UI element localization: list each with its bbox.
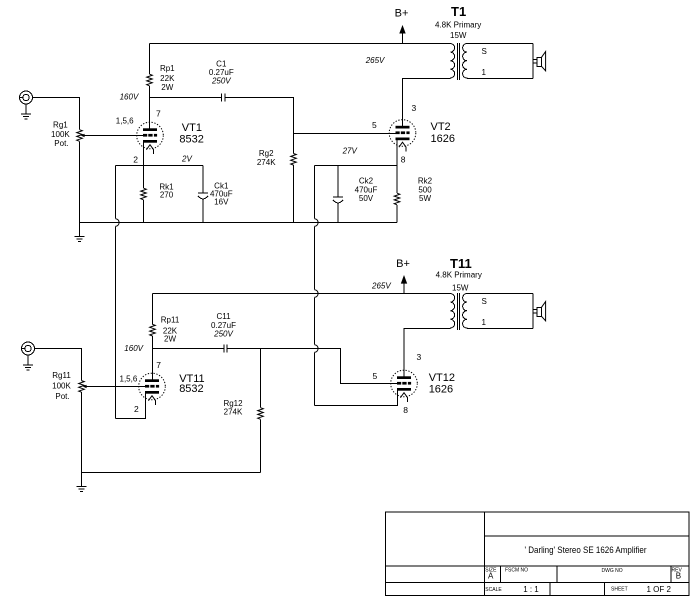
svg-text:100K: 100K xyxy=(52,382,71,391)
resistor Rk2 xyxy=(394,193,400,205)
svg-text:100K: 100K xyxy=(51,130,70,139)
svg-text:160V: 160V xyxy=(124,344,143,353)
ground (jack J11) xyxy=(27,355,29,365)
wire wiper to VT11 grid xyxy=(86,386,145,388)
svg-text:Rk2: Rk2 xyxy=(418,177,433,186)
capacitor C1 xyxy=(222,93,225,101)
triode VT12 xyxy=(391,370,418,402)
svg-text:SCALE: SCALE xyxy=(485,587,502,593)
ground bus (bottom channel) xyxy=(82,472,261,474)
svg-text:22K: 22K xyxy=(160,74,175,83)
ground (jack J1) xyxy=(25,104,27,114)
wiper arrow of Rg1 xyxy=(81,134,85,137)
svg-text:Rp1: Rp1 xyxy=(160,64,175,73)
wire shared cathode vertical (27V to VT12) with hops xyxy=(314,166,316,219)
svg-text:C11: C11 xyxy=(216,312,231,321)
input jack J1 xyxy=(20,91,33,104)
svg-text:250V: 250V xyxy=(211,77,231,86)
capacitor C11 xyxy=(224,344,227,352)
resistor Rg12 xyxy=(260,349,262,408)
title block row line 2 xyxy=(386,565,690,567)
ground (top bus) xyxy=(79,223,81,237)
svg-text:15W: 15W xyxy=(452,284,469,293)
wire pot bottom to ground bus xyxy=(81,392,83,472)
wire VT1 plate lead xyxy=(149,98,151,129)
B+ arrow (top) xyxy=(402,30,404,44)
svg-text:B: B xyxy=(676,572,681,581)
title block row line 1 xyxy=(484,535,689,537)
resistor Rk1 xyxy=(143,166,145,189)
svg-text:T1: T1 xyxy=(451,4,466,19)
wire shared cathode vertical (2V to VT11) with hop xyxy=(115,166,117,219)
capacitor Ck1 xyxy=(202,166,204,193)
svg-text:DWG NO: DWG NO xyxy=(602,568,623,574)
svg-text:4.8K Primary: 4.8K Primary xyxy=(435,21,481,30)
potentiometer Rg11 xyxy=(79,381,85,393)
input jack J11 xyxy=(22,342,35,355)
transformer T1 xyxy=(450,43,545,80)
svg-text:8: 8 xyxy=(403,405,408,415)
svg-text:3: 3 xyxy=(417,352,422,362)
svg-text:265V: 265V xyxy=(365,56,385,65)
svg-text:7: 7 xyxy=(156,360,161,370)
resistor Rg2 xyxy=(293,134,295,154)
svg-text:5W: 5W xyxy=(419,194,431,203)
wire T1 primary bottom to VT2 plate xyxy=(403,79,451,126)
transformer T11 xyxy=(450,293,545,330)
wire VT2 cathode to 27V node xyxy=(396,140,398,165)
svg-text:27V: 27V xyxy=(342,147,358,156)
title block rev cell divider xyxy=(670,566,672,583)
svg-text:1,5,6: 1,5,6 xyxy=(120,374,138,383)
svg-text:270: 270 xyxy=(160,191,174,200)
svg-text:2: 2 xyxy=(134,404,139,414)
svg-text:8532: 8532 xyxy=(179,133,203,145)
wire T11 primary bottom to VT12 plate xyxy=(404,329,450,377)
svg-text:A: A xyxy=(488,572,494,581)
wire 160V node to C11 xyxy=(153,348,224,350)
svg-text:SHEET: SHEET xyxy=(611,586,628,592)
svg-text:2: 2 xyxy=(133,155,138,165)
svg-text:250V: 250V xyxy=(213,330,233,339)
svg-text:2W: 2W xyxy=(161,83,173,92)
svg-text:VT2: VT2 xyxy=(431,121,451,133)
svg-text:Pot.: Pot. xyxy=(55,392,69,401)
wire wiper to VT1 grid xyxy=(84,135,143,137)
B+ arrow (bottom) xyxy=(403,280,405,294)
svg-text:B+: B+ xyxy=(396,258,410,270)
svg-text:VT12: VT12 xyxy=(429,372,455,384)
svg-text:1626: 1626 xyxy=(431,133,455,145)
title block column divider xyxy=(483,512,485,596)
svg-text:1 : 1: 1 : 1 xyxy=(523,585,539,594)
svg-text:16V: 16V xyxy=(214,198,229,207)
title block row line 3 xyxy=(386,582,690,584)
svg-text:1626: 1626 xyxy=(429,383,453,395)
triode VT1 xyxy=(137,122,164,154)
wire C11 to VT12 grid xyxy=(227,349,397,384)
svg-text:50V: 50V xyxy=(359,194,374,203)
svg-text:Ck2: Ck2 xyxy=(359,177,374,186)
svg-text:7: 7 xyxy=(156,109,161,119)
B+ rail (top) xyxy=(150,43,451,45)
wire VT11 cathode (pin 2) xyxy=(116,394,146,419)
B+ rail (bottom) xyxy=(153,293,451,295)
svg-text:B+: B+ xyxy=(395,8,409,20)
svg-text:274K: 274K xyxy=(224,407,243,416)
svg-text:Rg1: Rg1 xyxy=(53,121,68,130)
svg-text:VT1: VT1 xyxy=(182,122,202,134)
potentiometer Rg1 xyxy=(77,130,83,142)
svg-text:15W: 15W xyxy=(450,31,467,40)
wire pot bottom to ground bus xyxy=(79,141,81,222)
svg-text:1,5,6: 1,5,6 xyxy=(116,117,134,126)
title block scale cell divider xyxy=(549,583,551,596)
wire 160V node to C1 xyxy=(150,97,222,99)
svg-text:5: 5 xyxy=(373,371,378,381)
svg-text:Pot.: Pot. xyxy=(54,139,68,148)
svg-text:Rg11: Rg11 xyxy=(52,371,71,380)
wire jack to pot Rg11 xyxy=(35,349,82,381)
svg-text:8: 8 xyxy=(401,155,406,165)
wire 2V node xyxy=(116,165,204,167)
title block size cell divider xyxy=(499,566,501,583)
svg-text:Rp11: Rp11 xyxy=(161,316,180,325)
resistor Rp11 xyxy=(152,294,154,325)
svg-text:3: 3 xyxy=(412,103,417,113)
svg-text:8532: 8532 xyxy=(179,383,203,395)
title block fscm cell divider xyxy=(556,566,558,583)
wire C1 to VT2 grid xyxy=(225,98,396,134)
wire jack to pot xyxy=(33,98,80,130)
title block sheet cell divider xyxy=(604,583,606,596)
svg-text:265V: 265V xyxy=(371,281,391,290)
triode VT11 xyxy=(139,373,166,405)
svg-text:Rg2: Rg2 xyxy=(259,149,274,158)
title block frame xyxy=(386,512,690,596)
wire VT12 cathode to shared vertical xyxy=(315,391,398,406)
svg-text:FSCM NO: FSCM NO xyxy=(505,568,528,574)
svg-text:274K: 274K xyxy=(257,158,276,167)
triode VT2 xyxy=(389,120,416,152)
svg-text:4.8K Primary: 4.8K Primary xyxy=(436,271,482,280)
capacitor Ck2 xyxy=(337,166,339,197)
svg-text:2V: 2V xyxy=(181,155,192,164)
wiper arrow of Rg11 xyxy=(83,385,87,388)
wire 27V node top xyxy=(315,165,398,167)
svg-text:2W: 2W xyxy=(164,335,176,344)
svg-text:160V: 160V xyxy=(120,92,139,101)
svg-text:' Darling' Stereo SE 1626 Ampl: ' Darling' Stereo SE 1626 Amplifier xyxy=(525,545,647,556)
resistor Rp1 xyxy=(149,44,151,75)
svg-text:T11: T11 xyxy=(450,256,472,271)
svg-text:1 OF 2: 1 OF 2 xyxy=(647,585,672,594)
svg-text:5: 5 xyxy=(372,120,377,130)
ground bus (top channel) xyxy=(80,222,398,224)
wire VT11 plate lead xyxy=(152,349,154,380)
ground (bottom bus) xyxy=(81,473,83,487)
wire VT1 cathode (pin 2) xyxy=(143,143,145,166)
